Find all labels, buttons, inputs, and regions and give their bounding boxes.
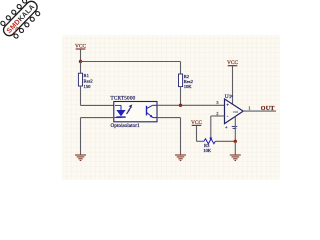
optoisolator U TCRT5000 body — [111, 96, 158, 130]
resistor R3 potentiometer — [203, 137, 215, 153]
svg-text:Optoisolator1: Optoisolator1 — [111, 123, 141, 129]
wire R2 top lead — [180, 62, 182, 75]
wire R1 bottom lead to opto anode — [81, 86, 116, 105]
node junction J1 at VCC rail — [79, 60, 82, 63]
pin 2 number — [216, 111, 219, 116]
svg-text:+: + — [226, 103, 229, 108]
svg-text:U1: U1 — [225, 94, 232, 100]
wire R2 bottom lead — [180, 87, 182, 106]
resistor R1 — [78, 73, 93, 89]
pin 3 number — [216, 100, 219, 105]
LED inside optoisolator — [115, 105, 126, 117]
logo SMDKALA chip — [0, 0, 43, 42]
wire opto collector to op-amp pin3 — [157, 104, 225, 106]
node junction J3 — [234, 140, 237, 143]
ground GND3 — [230, 155, 241, 161]
pin 1 number — [248, 106, 251, 111]
svg-text:+: + — [225, 126, 228, 131]
wire VCC3 to R3 — [197, 140, 205, 142]
node junction J2 collector/R2 — [179, 104, 182, 107]
op-amp U1 — [225, 94, 244, 131]
svg-text:150: 150 — [84, 84, 92, 89]
wire op-amp output pin1 — [243, 110, 276, 112]
ground GND1 — [75, 155, 86, 161]
wire VCC rail top horizontal — [81, 61, 181, 63]
resistor R2 — [179, 74, 194, 89]
wire opto emitter to ground — [157, 118, 181, 155]
wire R1 top lead — [80, 62, 82, 74]
power VCC1 — [75, 44, 86, 62]
svg-text:out: out — [233, 109, 239, 114]
svg-text:OUT: OUT — [261, 106, 275, 112]
wire op-amp pin2 to R3 wiper — [211, 116, 225, 137]
svg-text:TCRT5000: TCRT5000 — [111, 96, 136, 102]
wire R3 to junction — [215, 140, 235, 142]
sheet background with grid — [62, 35, 280, 180]
phototransistor inside optoisolator — [147, 105, 158, 118]
ground GND2 — [175, 155, 186, 161]
wire op-amp V- power pin to junction — [234, 117, 236, 142]
wire opto cathode to ground — [81, 118, 116, 155]
net label OUT — [261, 106, 275, 112]
power VCC3 — [191, 120, 202, 142]
svg-text:Res2: Res2 — [84, 78, 94, 83]
svg-text:10K: 10K — [184, 84, 193, 89]
power VCC2 op-amp supply — [227, 60, 238, 104]
svg-text:10K: 10K — [203, 148, 212, 153]
LED emission arrow — [127, 104, 133, 114]
wire junction to ground — [234, 141, 236, 155]
